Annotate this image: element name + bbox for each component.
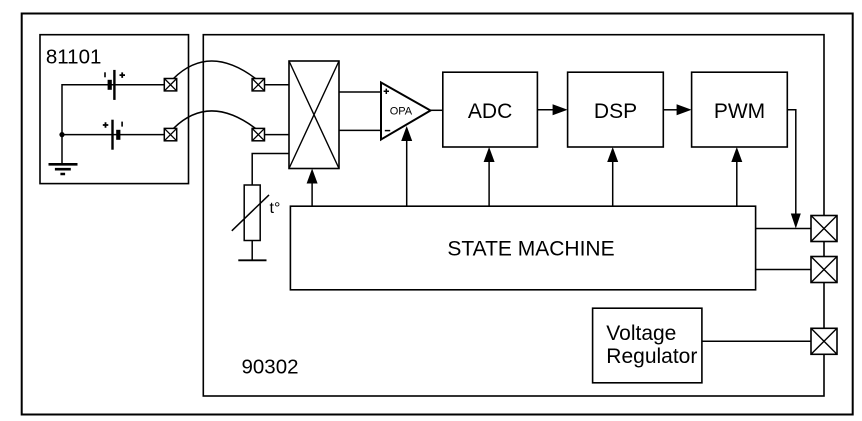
svg-text:STATE MACHINE: STATE MACHINE [447,238,614,261]
arrow SM to ADC [488,161,490,207]
block PWM [692,72,788,147]
wire mux to op-amp - input [339,129,381,131]
block 90302 (controller IC outline) [203,35,824,396]
svg-text:PWM: PWM [714,100,765,123]
thermistor RT body [244,185,260,241]
terminal T5 [811,216,837,242]
battery B2 positive plate [111,120,113,150]
wire T4 to mux [265,134,290,136]
wire DSP to PWM with arrow [663,109,678,111]
wire battery B1 to terminal T1 [62,84,164,86]
wire VR to terminal T7 [702,340,811,342]
svg-text:Voltage: Voltage [606,322,676,345]
terminal T2 [164,128,176,140]
terminal T6 [811,257,837,283]
battery B1 minus tick [104,72,106,77]
terminal T1 [164,79,176,91]
op-amp U1 [381,83,431,140]
svg-text:Regulator: Regulator [606,345,697,368]
svg-text:90302: 90302 [242,355,299,378]
ground G1 [49,164,78,174]
block DSP [568,72,664,147]
terminal T7 [811,328,837,354]
op-amp minus input mark [385,130,390,132]
wire op-amp output to ADC [431,109,443,111]
svg-text:81101: 81101 [46,45,101,68]
wire battery B2 to terminal T2 [62,134,164,136]
wire curve T1 to T3 [174,61,256,79]
svg-text:OPA: OPA [390,106,413,118]
svg-text:DSP: DSP [594,100,637,123]
battery B1 negative plate [108,80,112,90]
wire PWM output down to T5 net [787,110,796,215]
wire ADC to DSP with arrow [537,109,554,111]
thermistor bottom wire [251,241,253,261]
battery B1 plus sign [120,72,126,78]
wire curve T2 to T4 [174,111,256,128]
battery B1 positive plate [113,70,115,100]
battery B2 plus sign [103,122,109,128]
wire T3 to mux [265,84,290,86]
terminal T3 [252,79,264,91]
wire SM to terminal T6 [756,269,811,271]
wire SM to terminal T5 [756,228,811,230]
junction node batteries common [59,132,64,137]
arrow PWM down [791,214,801,229]
svg-text:t°: t° [270,200,281,217]
op-amp plus input mark [384,89,389,94]
terminal T4 [252,128,264,140]
arrow SM to DSP [612,161,614,207]
mux block (crossed rectangle) [289,61,339,169]
thermistor diagonal stroke [232,195,269,231]
block Voltage Regulator [593,308,702,383]
svg-text:ADC: ADC [468,100,512,123]
thermistor feed wire [252,154,289,186]
battery B2 negative plate [116,130,120,140]
block STATE MACHINE [290,206,755,290]
arrow SM to PWM [736,161,738,207]
wire mux to op-amp + input [339,91,381,93]
wire left rail [61,84,63,164]
battery B2 minus tick [121,122,123,127]
block 81101 (battery pack outline) [40,35,189,184]
arrow SM to op-amp [406,140,408,207]
arrow SM to mux [311,182,313,206]
block ADC [443,72,538,147]
ground G2 (bar) [238,259,266,261]
